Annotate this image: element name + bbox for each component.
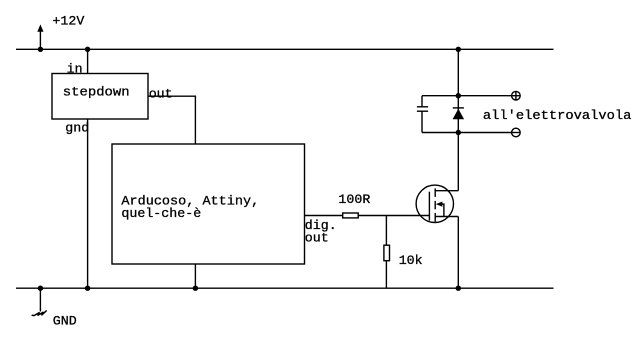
terminal plus output (512, 91, 521, 100)
svg-text:stepdown: stepdown (63, 85, 130, 100)
svg-text:out: out (305, 231, 329, 246)
node junction stepdown-gnd/bottom-rail (85, 286, 90, 291)
wire stepdown-in to rail (87, 49, 89, 73)
svg-text:+12V: +12V (52, 14, 84, 29)
svg-text:in: in (67, 62, 83, 77)
wire stepdown-gnd to bottom rail (87, 119, 89, 288)
transistor Q1 body arrow (436, 202, 444, 217)
svg-text:GND: GND (53, 313, 77, 328)
svg-text:out: out (149, 86, 173, 101)
transistor Q1 drain lead (435, 190, 458, 192)
diode D1 flyback (453, 108, 465, 119)
wire 10k pulldown branch (385, 216, 387, 289)
node junction source/bottom-rail (456, 286, 461, 291)
transistor Q1 channel dash body (434, 201, 436, 209)
resistor R1 100R body (343, 213, 359, 218)
resistor R2 10k body (384, 245, 390, 261)
capacitor C1 (417, 96, 428, 133)
node junction arrow/top-rail (38, 47, 43, 52)
svg-text:gnd: gnd (65, 121, 89, 136)
node junction stepdown-in/top-rail (85, 47, 90, 52)
regulator U1 stepdown box (52, 74, 148, 120)
transistor Q1 source lead (435, 216, 458, 218)
node junction flyback-bottom (456, 130, 461, 135)
transistor Q1 MOSFET circle (416, 185, 453, 222)
wire MCU ground to bottom rail (194, 264, 196, 288)
ground symbol GND (32, 288, 46, 315)
transistor Q1 channel dash drain (434, 188, 436, 197)
wire GND bottom rail (16, 287, 554, 289)
wire +12V top rail (16, 48, 554, 50)
node junction MCU-gnd/bottom-rail (193, 286, 198, 291)
svg-text:all'elettrovalvola: all'elettrovalvola (483, 108, 632, 123)
power symbol +12V arrow (37, 24, 43, 49)
transistor Q1 gate bar (428, 192, 430, 221)
terminal minus output (512, 128, 521, 137)
svg-text:10k: 10k (399, 253, 423, 268)
MCU U2 Arducoso box (112, 144, 305, 264)
svg-text:100R: 100R (338, 192, 370, 207)
wire flyback bottom branch to minus terminal (422, 132, 512, 134)
wire flyback top node to top rail (457, 49, 459, 132)
node junction flyback-top (456, 93, 461, 98)
wire dig.out to gate (305, 215, 430, 217)
transistor Q1 channel dash source (434, 213, 436, 222)
node junction gnd-stub/bottom-rail (38, 286, 43, 291)
wire flyback top branch to plus terminal (422, 95, 512, 97)
wire stepdown-out to MCU box (148, 96, 195, 144)
wire drain to flyback bottom node (457, 133, 459, 191)
svg-text:quel-che-è: quel-che-è (121, 206, 201, 221)
wire source to bottom rail (457, 217, 459, 289)
node junction drain-branch/top-rail (456, 47, 461, 52)
